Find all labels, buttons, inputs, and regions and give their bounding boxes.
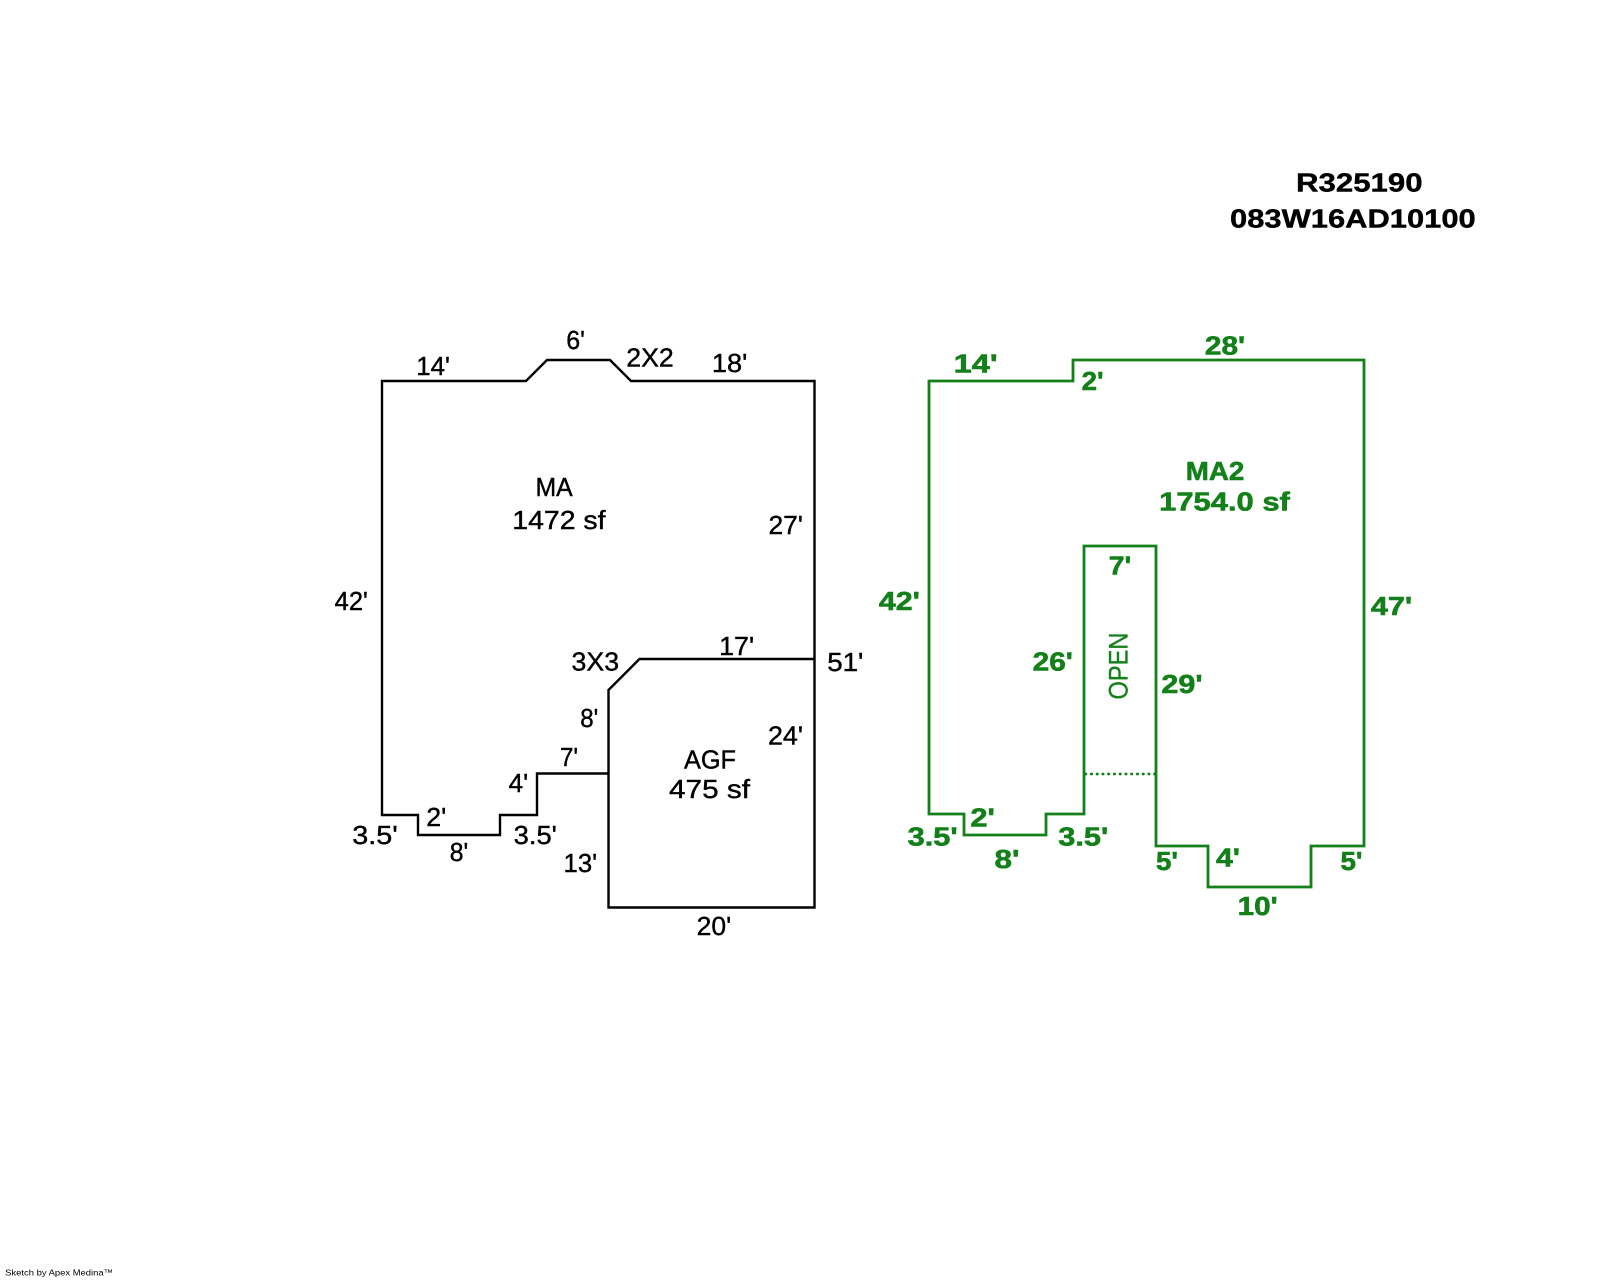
svg-text:2': 2' (1082, 366, 1104, 396)
svg-text:MA: MA (536, 472, 574, 502)
MA outline (black) (382, 360, 815, 908)
MA/AGF divider wall (609, 659, 815, 774)
svg-text:1754.0 sf: 1754.0 sf (1159, 487, 1290, 517)
svg-text:3.5': 3.5' (1058, 822, 1108, 852)
svg-text:24': 24' (768, 721, 803, 751)
svg-text:8': 8' (580, 703, 598, 733)
svg-text:27': 27' (769, 510, 803, 540)
svg-text:13': 13' (564, 848, 598, 878)
svg-text:3X3: 3X3 (572, 647, 620, 677)
svg-text:4': 4' (509, 768, 529, 798)
svg-text:5': 5' (1156, 846, 1178, 876)
svg-text:7': 7' (560, 742, 578, 772)
svg-text:2': 2' (426, 802, 446, 832)
svg-text:083W16AD10100: 083W16AD10100 (1230, 204, 1476, 234)
svg-text:51': 51' (827, 647, 863, 677)
svg-text:2': 2' (970, 803, 995, 833)
open area dotted line (1086, 773, 1156, 776)
svg-text:8': 8' (450, 837, 469, 867)
svg-text:14': 14' (416, 351, 450, 381)
svg-text:Sketch by Apex Medina™: Sketch by Apex Medina™ (5, 1268, 113, 1278)
svg-text:6': 6' (566, 325, 585, 355)
svg-text:42': 42' (335, 586, 368, 616)
svg-text:OPEN: OPEN (1103, 633, 1133, 700)
svg-text:5': 5' (1341, 846, 1363, 876)
svg-text:20': 20' (697, 911, 732, 941)
MA2 outline (green) (929, 360, 1364, 887)
svg-text:42': 42' (879, 586, 920, 616)
svg-text:47': 47' (1371, 591, 1412, 621)
svg-text:R325190: R325190 (1296, 168, 1423, 198)
svg-text:MA2: MA2 (1186, 456, 1245, 486)
svg-text:26': 26' (1033, 647, 1073, 677)
svg-text:14': 14' (954, 349, 998, 379)
svg-text:2X2: 2X2 (626, 342, 674, 372)
svg-text:10': 10' (1238, 891, 1278, 921)
svg-text:AGF: AGF (684, 745, 736, 775)
svg-text:3.5': 3.5' (514, 820, 557, 850)
svg-text:29': 29' (1161, 669, 1202, 699)
svg-text:3.5': 3.5' (908, 822, 958, 852)
svg-text:1472 sf: 1472 sf (512, 505, 606, 535)
svg-text:7': 7' (1109, 551, 1132, 581)
svg-text:475 sf: 475 sf (669, 774, 751, 804)
svg-text:17': 17' (719, 631, 754, 661)
svg-text:18': 18' (712, 348, 747, 378)
svg-text:28': 28' (1205, 331, 1245, 361)
svg-text:3.5': 3.5' (352, 820, 398, 850)
svg-text:4': 4' (1216, 843, 1240, 873)
svg-text:8': 8' (995, 844, 1020, 874)
